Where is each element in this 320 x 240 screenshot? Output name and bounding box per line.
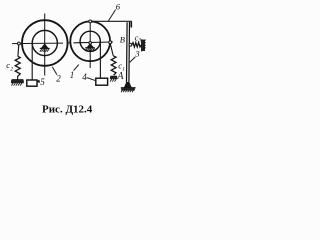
- wall anchor of spring c3: [142, 39, 146, 51]
- svg-text:5: 5: [40, 77, 45, 87]
- pulley 2 outer rim: [22, 20, 68, 66]
- svg-text:1: 1: [70, 70, 75, 80]
- rod 6 horizontal: [92, 20, 132, 22]
- wire vertical centerline left pulley: [44, 14, 46, 76]
- block 4: [96, 78, 108, 85]
- spring c3: [132, 43, 142, 47]
- svg-text:2: 2: [10, 66, 13, 72]
- rack rod 3 vertical double line: [127, 21, 132, 82]
- wire vertical centerline right pulley: [89, 21, 91, 68]
- pulley 2 inner rim: [32, 30, 57, 55]
- ground anchor of spring c1: [110, 76, 117, 81]
- svg-text:2: 2: [56, 74, 61, 84]
- label 6 leader: [108, 10, 115, 21]
- rod 3 foot: [124, 82, 132, 88]
- svg-text:3: 3: [137, 37, 141, 43]
- svg-text:A: A: [116, 71, 124, 82]
- block 5: [27, 80, 37, 86]
- label 4 leader: [87, 78, 96, 81]
- ground anchor of spring c2: [11, 80, 24, 86]
- wire cord from pulley 2 rim down to spring c2: [17, 45, 20, 56]
- svg-text:B: B: [120, 35, 125, 45]
- node ring on pulley 2 left rim: [18, 42, 21, 45]
- label 3 leader: [130, 57, 136, 63]
- label 1 leader: [74, 65, 79, 71]
- ground under rod 3: [121, 88, 136, 92]
- pulley 1 inner rim: [80, 31, 100, 51]
- wire cord from pulley 1 rim down to spring c1: [110, 44, 113, 56]
- label 2 leader: [52, 67, 57, 75]
- spring c2: [15, 56, 20, 76]
- node ring on top of pulley 1: [89, 20, 92, 23]
- spring c1: [111, 56, 116, 75]
- node ring on pulley 1 right rim: [109, 41, 112, 44]
- wire horizontal centerline through both pulleys: [12, 42, 113, 44]
- wire cord from pulley 1 inner rim down to block 4: [99, 42, 101, 78]
- svg-text:3: 3: [134, 49, 139, 59]
- pivot support of pulley 1: [85, 42, 95, 52]
- node ring rod to spring c3: [129, 43, 132, 46]
- svg-text:6: 6: [116, 1, 121, 11]
- svg-text:4: 4: [82, 72, 87, 82]
- svg-text:Рис. Д12.4: Рис. Д12.4: [42, 103, 93, 115]
- wire link spring c2 to anchor: [17, 76, 19, 80]
- pulley 1 outer rim: [70, 21, 110, 61]
- label 5 leader arrow: [37, 80, 39, 82]
- pivot support of pulley 2: [40, 43, 50, 52]
- wire cord from pulley 2 inner rim down to block 5: [31, 43, 33, 80]
